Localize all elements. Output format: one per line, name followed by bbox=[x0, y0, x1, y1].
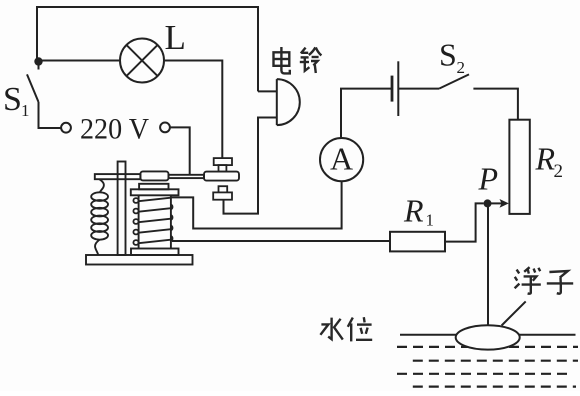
float (ellipse) bbox=[456, 325, 520, 349]
wire coil to ammeter bbox=[171, 182, 342, 229]
top rail wire bbox=[37, 7, 258, 91]
resistor R1 bbox=[390, 232, 445, 252]
wire R1 to slider bbox=[445, 203, 484, 241]
relay coil bottom flange bbox=[131, 249, 179, 256]
wire S2 to R2 bbox=[473, 89, 518, 120]
junction dot node bbox=[34, 57, 42, 65]
svg-text:R: R bbox=[403, 193, 424, 229]
wire 220V right terminal to armature bbox=[170, 127, 190, 174]
relay return spring (left) bbox=[91, 179, 108, 255]
slider P dot bbox=[484, 199, 492, 207]
relay coil body bbox=[139, 195, 171, 248]
svg-text:L: L bbox=[165, 18, 186, 57]
slider arrow bbox=[488, 199, 509, 208]
svg-text:S: S bbox=[3, 81, 22, 118]
svg-text:220 V: 220 V bbox=[80, 112, 149, 145]
water dashed line row 4 bbox=[413, 386, 576, 388]
water dashed line row 2 bbox=[413, 360, 578, 362]
relay armature arm bbox=[95, 171, 239, 180]
relay base bbox=[86, 255, 193, 265]
ammeter A bbox=[320, 138, 363, 181]
switch S2 blade bbox=[439, 74, 469, 88]
water level line bbox=[400, 334, 576, 336]
water dashed line row 1 bbox=[397, 346, 578, 348]
wire bell bottom to lower contact bbox=[224, 118, 277, 214]
rheostat R2 bbox=[509, 120, 529, 214]
relay coil core top bbox=[139, 184, 168, 190]
relay coil windings bbox=[133, 198, 172, 245]
water dashed line row 3 bbox=[397, 373, 573, 375]
wire coil to R1 bbox=[172, 240, 390, 242]
svg-text:1: 1 bbox=[426, 211, 435, 230]
switch S1 bbox=[27, 63, 61, 128]
svg-text:S: S bbox=[439, 37, 457, 73]
electric bell symbol bbox=[277, 79, 300, 125]
svg-text:R: R bbox=[535, 141, 556, 177]
relay upper fixed contact bbox=[214, 158, 232, 172]
battery short plate bbox=[391, 76, 394, 102]
terminal circle left (220 V) bbox=[61, 123, 71, 133]
svg-text:1: 1 bbox=[21, 101, 30, 120]
svg-text:A: A bbox=[330, 141, 353, 177]
svg-text:2: 2 bbox=[457, 58, 466, 77]
lamp L bbox=[120, 39, 164, 83]
wire bell top terminal bbox=[258, 90, 277, 92]
label 浮子 (float) bbox=[515, 267, 574, 293]
svg-text:P: P bbox=[478, 161, 499, 197]
pointer line to float label bbox=[502, 301, 526, 325]
label 电铃 (electric bell) bbox=[274, 47, 322, 73]
label 水位 (water level) bbox=[320, 317, 372, 341]
float rod wire bbox=[487, 203, 489, 325]
wire lamp to contact drop bbox=[165, 61, 222, 159]
relay support post bbox=[118, 162, 126, 256]
svg-text:2: 2 bbox=[554, 161, 564, 182]
wire ammeter to battery bbox=[341, 89, 392, 138]
battery long plate bbox=[397, 61, 399, 116]
relay lower fixed contact bbox=[213, 186, 232, 200]
wire dot to lamp bbox=[39, 60, 120, 62]
wire battery to S2 bbox=[398, 88, 439, 90]
terminal circle right (220 V) bbox=[160, 123, 170, 133]
relay coil top flange bbox=[131, 189, 179, 195]
